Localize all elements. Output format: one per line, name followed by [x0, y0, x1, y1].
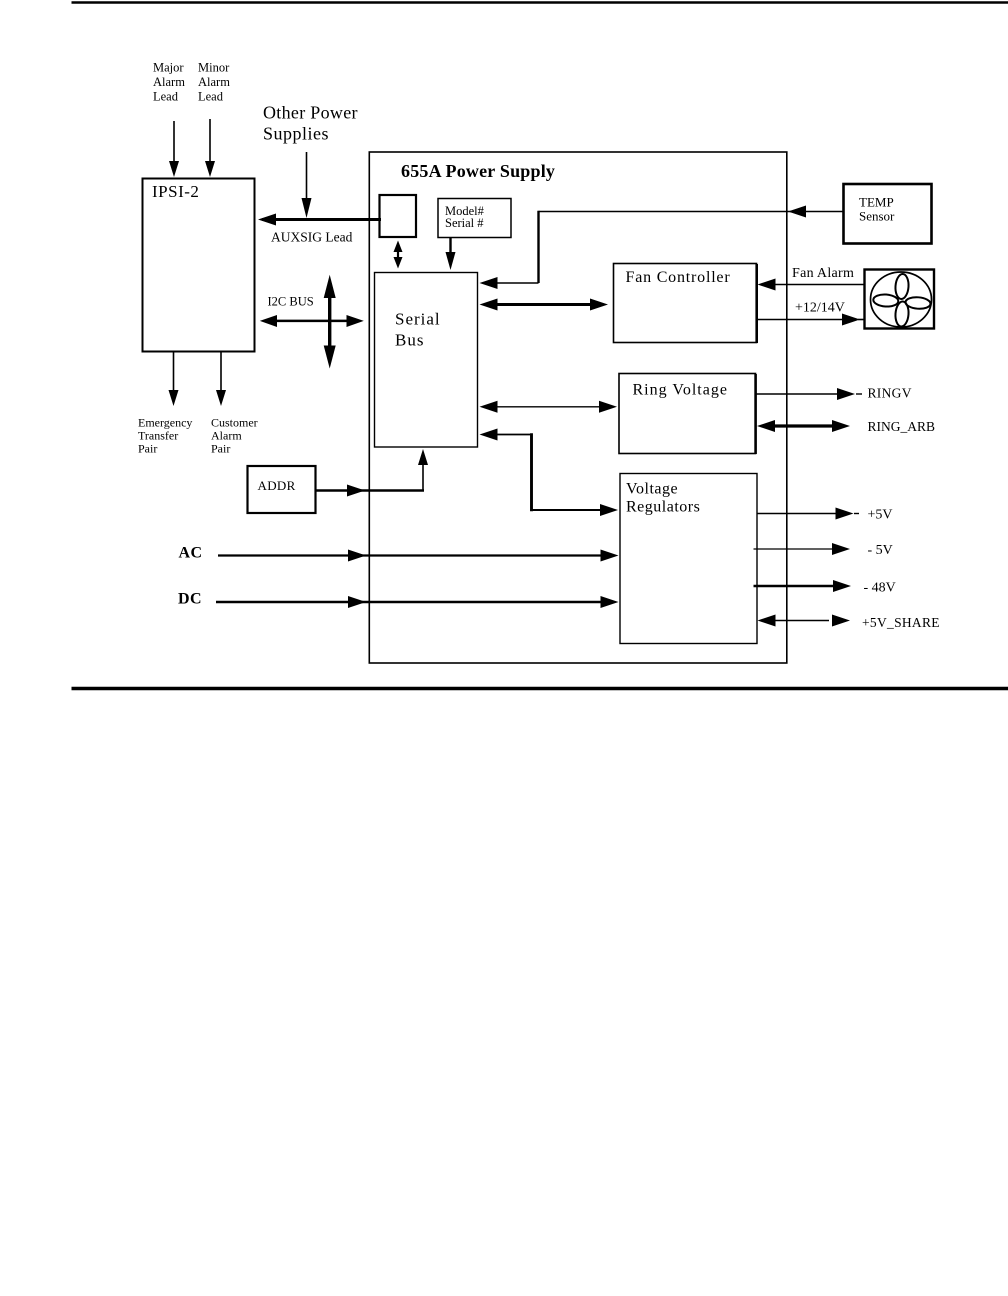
box TEMP Sensor — [844, 184, 932, 244]
svg-text:Lead: Lead — [153, 90, 179, 104]
svg-text:Ring Voltage: Ring Voltage — [633, 382, 728, 399]
box aux connector (unlabeled) — [380, 195, 417, 237]
wire TEMP Sensor to serial bus riser — [539, 211, 844, 213]
svg-text:ADDR: ADDR — [258, 478, 296, 493]
wire Serial Bus to Voltage Regulators (bent) — [497, 434, 530, 436]
svg-text:Fan Alarm: Fan Alarm — [792, 266, 854, 281]
wire RING_ARB double arrow — [772, 424, 834, 427]
wire +12/14V from Fan Controller to fan — [757, 319, 844, 321]
wire aux connector to Serial Bus double arrow — [397, 248, 399, 262]
svg-text:Bus: Bus — [395, 331, 424, 350]
wire Major Alarm lead arrow into IPSI-2 — [173, 121, 175, 165]
svg-text:+12/14V: +12/14V — [795, 301, 845, 316]
svg-text:Customer: Customer — [211, 416, 258, 430]
svg-text:+5V_SHARE: +5V_SHARE — [862, 615, 940, 630]
svg-text:Pair: Pair — [138, 442, 157, 456]
svg-text:TEMP: TEMP — [859, 195, 894, 210]
wire I2C BUS horizontal double arrow — [274, 320, 350, 323]
wire RINGV output — [756, 393, 839, 395]
top rule — [72, 1, 1008, 4]
wire Customer Alarm pair from IPSI-2 — [220, 352, 222, 395]
svg-text:- 5V: - 5V — [868, 543, 893, 558]
svg-text:Regulators: Regulators — [626, 499, 700, 516]
wire DC input — [216, 601, 601, 604]
wire AUXSIG lead — [262, 218, 381, 221]
box Ring Voltage — [619, 374, 756, 454]
wire AC input — [218, 554, 601, 556]
svg-text:Sensor: Sensor — [859, 209, 895, 224]
svg-text:Serial: Serial — [395, 310, 441, 329]
box Serial Bus — [375, 273, 478, 448]
wire -48V output — [754, 585, 834, 588]
svg-text:RING_ARB: RING_ARB — [868, 419, 936, 434]
svg-text:Pair: Pair — [211, 442, 230, 456]
svg-text:Serial #: Serial # — [445, 216, 484, 230]
wire Model# box down to Serial Bus — [449, 238, 451, 257]
svg-text:Transfer: Transfer — [138, 429, 178, 443]
svg-text:Minor: Minor — [198, 61, 230, 75]
svg-text:I2C BUS: I2C BUS — [268, 295, 314, 309]
wire -5V output — [754, 548, 835, 550]
svg-text:Alarm: Alarm — [198, 75, 230, 89]
svg-text:- 48V: - 48V — [864, 581, 896, 596]
box Voltage Regulators — [620, 474, 757, 644]
svg-text:AUXSIG Lead: AUXSIG Lead — [271, 230, 353, 245]
svg-text:Alarm: Alarm — [211, 429, 242, 443]
svg-text:Fan Controller: Fan Controller — [626, 269, 731, 286]
wire I2C BUS vertical double arrow — [328, 293, 331, 352]
wire Minor Alarm lead arrow into IPSI-2 — [209, 119, 211, 165]
svg-text:Alarm: Alarm — [153, 75, 185, 89]
box 655A Power Supply — [369, 152, 787, 663]
box IPSI-2 — [143, 179, 255, 352]
wire +5V output — [757, 513, 837, 515]
wire +5V_SHARE double arrow — [774, 620, 829, 622]
svg-text:RINGV: RINGV — [868, 386, 912, 401]
box Fan Controller — [614, 264, 757, 343]
box ADDR — [248, 466, 316, 513]
svg-text:Emergency: Emergency — [138, 416, 192, 430]
svg-text:IPSI-2: IPSI-2 — [152, 182, 199, 201]
svg-text:Major: Major — [153, 61, 184, 75]
wire Other Power Supplies arrow down to AUXSIG lead — [306, 152, 308, 200]
box Model# Serial# — [438, 199, 511, 238]
svg-text:655A Power Supply: 655A Power Supply — [401, 161, 555, 181]
bottom rule — [72, 687, 1008, 690]
svg-text:AC: AC — [179, 545, 203, 562]
svg-text:Supplies: Supplies — [263, 124, 329, 144]
wire Serial Bus to Fan Controller double arrow — [495, 303, 591, 306]
svg-text:Voltage: Voltage — [626, 481, 678, 498]
fan icon — [865, 270, 935, 329]
wire ADDR to Serial Bus — [316, 489, 425, 492]
svg-text:+5V: +5V — [868, 508, 893, 523]
svg-text:Lead: Lead — [198, 90, 224, 104]
wire Fan Alarm from fan to Fan Controller — [772, 284, 865, 286]
wire Serial Bus to Ring Voltage double arrow — [495, 406, 600, 408]
svg-text:Other Power: Other Power — [263, 103, 358, 123]
wire Emergency Transfer pair from IPSI-2 — [173, 352, 175, 395]
svg-text:DC: DC — [178, 591, 202, 608]
